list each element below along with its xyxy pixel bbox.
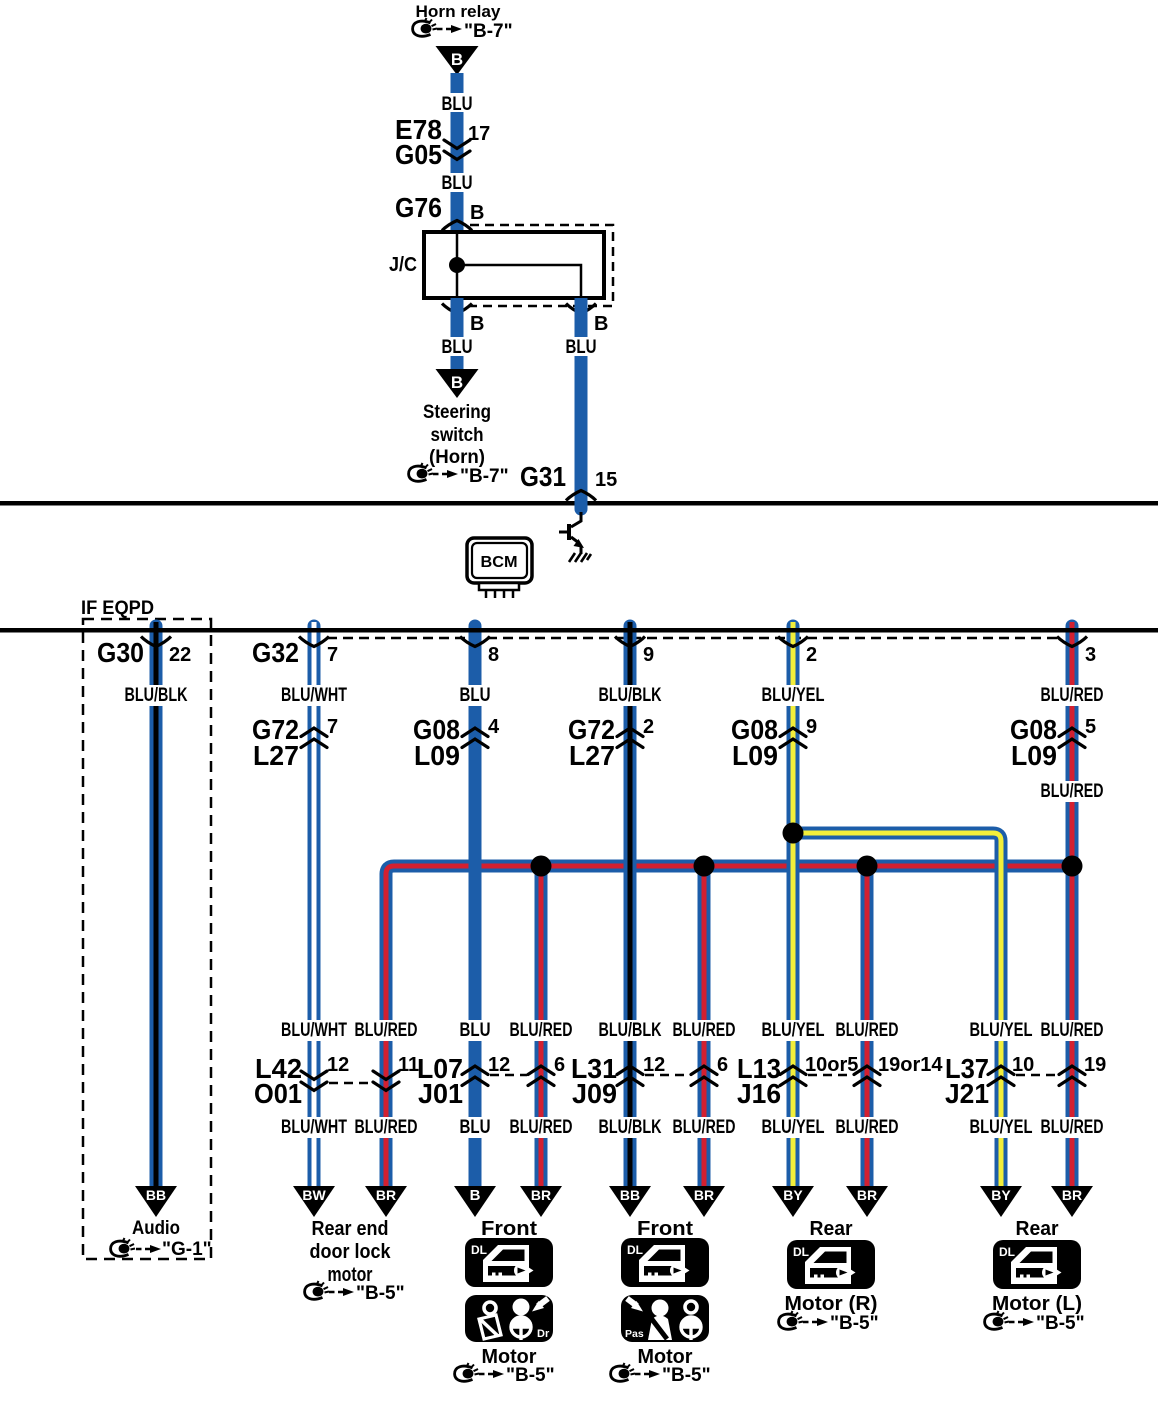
wire BLU to steering switch <box>451 298 464 369</box>
dashed arrow to "B-5" <box>1009 1318 1034 1326</box>
eye symbol (audio reference) <box>111 1238 135 1256</box>
svg-text:BLU/BLK: BLU/BLK <box>599 685 662 706</box>
svg-text:BLU/RED: BLU/RED <box>355 1020 418 1041</box>
svg-text:(Horn): (Horn) <box>429 447 485 468</box>
wire BLU/BLK pin 9 <box>624 626 637 1190</box>
svg-text:2: 2 <box>643 716 654 738</box>
svg-text:B: B <box>594 313 608 335</box>
connector G72/L27 (G32 circuit) <box>252 714 338 771</box>
wire label BLU/RED (row2) <box>671 1020 737 1041</box>
svg-text:Rear: Rear <box>810 1218 853 1240</box>
BCM pin chevron 3 <box>1057 637 1087 647</box>
dashed arrow to "B-7" <box>433 470 458 478</box>
junction dot bus at 541 <box>531 856 552 877</box>
svg-text:G76: G76 <box>395 192 442 223</box>
triangle connector BR <box>683 1186 725 1217</box>
connector L07/J01 <box>417 1053 565 1109</box>
svg-text:BLU/RED: BLU/RED <box>673 1117 736 1138</box>
connector G76 chevron <box>442 221 472 231</box>
triangle connector BY <box>772 1186 814 1217</box>
wire BLU/RED stub to L07 pin 6 <box>535 866 548 1190</box>
triangle connector BR <box>520 1186 562 1217</box>
svg-text:switch: switch <box>431 425 484 446</box>
svg-text:"B-5": "B-5" <box>662 1365 711 1386</box>
svg-text:BLU/WHT: BLU/WHT <box>281 685 347 706</box>
svg-text:BR: BR <box>694 1187 714 1203</box>
junction connector J/C box <box>424 232 604 298</box>
svg-text:5: 5 <box>1085 716 1096 738</box>
svg-text:IF EQPD: IF EQPD <box>81 598 154 619</box>
svg-text:9: 9 <box>643 644 654 666</box>
svg-text:G31: G31 <box>520 461 566 492</box>
triangle connector BY <box>980 1186 1022 1217</box>
connector L31/J09 <box>571 1053 728 1109</box>
connector G08/L09 (BLU circuit) <box>413 714 500 771</box>
BCM module icon <box>467 538 532 583</box>
svg-text:Rear: Rear <box>1016 1218 1059 1240</box>
wire BLU/RED stub to L31 pin 6 <box>698 866 711 1190</box>
triangle connector BR <box>1051 1186 1093 1217</box>
wire label BLU/RED (row3) <box>834 1117 900 1138</box>
connector L13/J16 <box>737 1053 943 1109</box>
eye symbol (rear left motor reference) <box>985 1311 1009 1329</box>
connector L37/J21 <box>945 1053 1106 1109</box>
dashed arrow to "B-5" <box>329 1288 354 1296</box>
svg-text:O01: O01 <box>254 1078 302 1109</box>
BCM pin chevron G32 <box>299 637 329 647</box>
svg-text:3: 3 <box>1085 644 1096 666</box>
wire label BLU/RED (row3) <box>1039 1117 1105 1138</box>
J/C dashed connector outline <box>466 225 613 306</box>
junction dot bus at 704 <box>694 856 715 877</box>
wire label BLU/BLK (row3) <box>597 1117 663 1138</box>
svg-text:L09: L09 <box>1011 740 1057 771</box>
svg-text:L27: L27 <box>253 740 299 771</box>
svg-text:"B-5": "B-5" <box>830 1313 879 1334</box>
svg-text:Front: Front <box>481 1218 537 1240</box>
svg-text:BLU: BLU <box>566 337 597 358</box>
svg-text:G05: G05 <box>395 139 442 170</box>
wire label BLU/WHT (row3) <box>281 1117 347 1138</box>
wire BLU/RED pin 3 <box>1066 626 1079 1190</box>
wire BLU to BCM G31 <box>575 298 588 509</box>
wire BLU/RED stub to L13 pin 19or14 <box>861 866 874 1190</box>
dashed IF-EQPD box around G30 circuit <box>83 619 211 1259</box>
connector E78/G05 double chevron <box>444 140 470 160</box>
chevron below J/C right <box>566 304 596 314</box>
triangle connector B (from horn relay) <box>436 46 479 75</box>
svg-text:BB: BB <box>620 1187 640 1203</box>
svg-text:4: 4 <box>488 716 500 738</box>
wire BLU/WHT G32 pin 7 <box>308 626 321 1190</box>
svg-text:Horn relay: Horn relay <box>416 2 502 21</box>
svg-text:"B-7": "B-7" <box>460 466 509 487</box>
svg-text:12: 12 <box>327 1054 349 1076</box>
eye symbol (rear right motor reference) <box>779 1311 803 1329</box>
svg-text:BLU/RED: BLU/RED <box>510 1117 573 1138</box>
svg-text:BLU/WHT: BLU/WHT <box>281 1020 347 1041</box>
door lock icon DL (front passenger) <box>621 1238 709 1287</box>
triangle connector BW <box>293 1186 335 1217</box>
svg-text:BR: BR <box>531 1187 551 1203</box>
dashed BCM pin boundary line <box>327 637 1059 640</box>
svg-text:12: 12 <box>488 1054 510 1076</box>
door lock icon DL (rear right) <box>787 1240 875 1289</box>
wire label BLU/BLK (row2) <box>597 1020 663 1041</box>
svg-text:"B-5": "B-5" <box>506 1365 555 1386</box>
svg-text:BLU/RED: BLU/RED <box>836 1117 899 1138</box>
svg-text:BLU/RED: BLU/RED <box>355 1117 418 1138</box>
svg-text:17: 17 <box>468 123 490 145</box>
wire label BLU/YEL (row3) <box>760 1117 826 1138</box>
wire label BLU/YEL (row2) <box>968 1020 1034 1041</box>
triangle connector BR <box>846 1186 888 1217</box>
eye symbol (Horn relay reference) <box>413 18 437 36</box>
BCM internal boundary line (top) <box>0 501 1158 506</box>
wire BLU pin 8 <box>469 626 482 1190</box>
svg-text:"B-7": "B-7" <box>464 21 513 42</box>
svg-text:BLU/YEL: BLU/YEL <box>762 1020 825 1041</box>
svg-text:BLU/BLK: BLU/BLK <box>599 1117 662 1138</box>
svg-text:B: B <box>451 373 463 392</box>
svg-text:J21: J21 <box>945 1078 989 1109</box>
dashed arrow to "B-5" <box>479 1370 504 1378</box>
wire label BLU/RED (row3) <box>353 1117 419 1138</box>
svg-text:J/C: J/C <box>389 254 417 276</box>
svg-text:BLU: BLU <box>442 94 473 115</box>
wire label BLU/RED <box>1037 685 1107 706</box>
svg-text:19or14: 19or14 <box>878 1054 943 1076</box>
door lock icon DL (rear left) <box>993 1240 1081 1289</box>
chevron below J/C left <box>442 304 472 314</box>
dashed arrow to "B-7" <box>437 25 462 33</box>
svg-text:Motor (R): Motor (R) <box>785 1293 878 1315</box>
svg-text:11: 11 <box>398 1054 419 1076</box>
connector L42/O01 <box>254 1053 419 1109</box>
svg-text:J16: J16 <box>737 1078 781 1109</box>
ground symbol <box>569 553 591 562</box>
triangle connector BB <box>609 1186 651 1217</box>
svg-text:BCM: BCM <box>481 554 518 571</box>
J/C internal wire <box>456 232 459 298</box>
wire label BLU/RED (row2) <box>508 1020 574 1041</box>
svg-text:BLU/RED: BLU/RED <box>673 1020 736 1041</box>
junction dot BLU/YEL <box>783 823 804 844</box>
eye symbol (front driver motor reference) <box>455 1363 479 1381</box>
dashed arrow to "B-5" <box>635 1370 660 1378</box>
svg-text:BLU: BLU <box>442 337 473 358</box>
BCM pin chevron 8 <box>460 637 490 647</box>
svg-text:B: B <box>470 1187 481 1204</box>
svg-text:G30: G30 <box>97 637 144 668</box>
wire label BLU/RED (row3) <box>671 1117 737 1138</box>
eye symbol (steering switch reference) <box>409 463 433 481</box>
wire label BLU/YEL (row2) <box>760 1020 826 1041</box>
wire label BLU/RED (row3) <box>508 1117 574 1138</box>
svg-text:BLU/YEL: BLU/YEL <box>970 1020 1033 1041</box>
J/C junction dot <box>449 257 465 273</box>
svg-text:L09: L09 <box>732 740 778 771</box>
wire BLU/RED bus (L42 pin 11 branch) <box>386 866 1072 1190</box>
connector G31 chevron <box>566 491 596 501</box>
svg-text:BLU/RED: BLU/RED <box>1041 781 1104 802</box>
wire label BLU/BLK <box>595 685 665 706</box>
BCM pin chevron 9 <box>615 637 645 647</box>
svg-text:BLU/RED: BLU/RED <box>1041 1020 1104 1041</box>
wire label BLU/RED (below G08/L09) <box>1037 781 1107 802</box>
svg-text:BB: BB <box>146 1187 166 1203</box>
junction dot bus at 1072 <box>1062 856 1083 877</box>
dashed arrow to "B-5" <box>803 1318 828 1326</box>
svg-text:BLU/RED: BLU/RED <box>836 1020 899 1041</box>
BCM pin boundary line (bottom) <box>0 628 1158 633</box>
wire label BLU/BLK <box>121 685 191 706</box>
svg-text:"G-1": "G-1" <box>162 1239 212 1260</box>
svg-text:"B-5": "B-5" <box>1036 1313 1085 1334</box>
svg-text:BW: BW <box>302 1187 326 1203</box>
BCM pin chevron G30 <box>141 637 171 647</box>
svg-text:BLU/RED: BLU/RED <box>1041 1117 1104 1138</box>
svg-text:BLU: BLU <box>460 1117 491 1138</box>
wire BLU/YEL branch (to L37 pin 10) <box>793 833 1001 1190</box>
svg-text:Audio: Audio <box>132 1218 180 1239</box>
svg-text:6: 6 <box>717 1054 728 1076</box>
svg-text:8: 8 <box>488 644 499 666</box>
wire label BLU/YEL (row3) <box>968 1117 1034 1138</box>
wire BLU/YEL pin 2 <box>787 626 800 1190</box>
transistor inside BCM <box>571 512 581 527</box>
svg-text:BLU: BLU <box>442 173 473 194</box>
svg-text:J09: J09 <box>572 1078 617 1109</box>
triangle connector B (to steering switch) <box>436 369 479 398</box>
svg-text:B: B <box>451 50 463 69</box>
svg-text:BY: BY <box>783 1187 803 1203</box>
dashed arrow to "G-1" <box>136 1245 161 1253</box>
junction dot bus at 867 <box>857 856 878 877</box>
svg-text:BR: BR <box>376 1187 396 1203</box>
connector G72/L27 (BLU/BLK circuit) <box>568 714 654 771</box>
wire label BLU/RED (row2) <box>353 1020 419 1041</box>
wire label BLU/WHT (row2) <box>281 1020 347 1041</box>
svg-text:BLU/BLK: BLU/BLK <box>125 685 188 706</box>
connector G08/L09 (BLU/RED circuit) <box>1010 714 1096 771</box>
svg-text:B: B <box>470 202 484 224</box>
wire label BLU/RED (row2) <box>834 1020 900 1041</box>
svg-text:BLU/YEL: BLU/YEL <box>970 1117 1033 1138</box>
wire BLU/BLK G30 pin 22 (audio) <box>150 626 163 1190</box>
svg-text:L09: L09 <box>414 740 460 771</box>
svg-text:9: 9 <box>806 716 817 738</box>
svg-text:10: 10 <box>1012 1054 1034 1076</box>
eye symbol (rear end door lock motor reference) <box>305 1281 329 1299</box>
svg-text:2: 2 <box>806 644 817 666</box>
svg-text:12: 12 <box>643 1054 665 1076</box>
svg-text:BLU/RED: BLU/RED <box>510 1020 573 1041</box>
svg-text:BLU/YEL: BLU/YEL <box>762 685 825 706</box>
wire BLU from triangle B to J/C <box>451 73 464 233</box>
wire label BLU/YEL <box>758 685 828 706</box>
passenger motor icon Pas <box>621 1295 709 1342</box>
svg-text:BLU/BLK: BLU/BLK <box>599 1020 662 1041</box>
svg-text:Rear end: Rear end <box>312 1218 389 1240</box>
svg-text:BLU/RED: BLU/RED <box>1041 685 1104 706</box>
wire label BLU/WHT <box>279 685 349 706</box>
svg-text:BY: BY <box>991 1187 1011 1203</box>
svg-text:6: 6 <box>554 1054 565 1076</box>
svg-text:BLU/WHT: BLU/WHT <box>281 1117 347 1138</box>
connector G08/L09 (BLU/YEL circuit) <box>731 714 817 771</box>
svg-text:15: 15 <box>595 469 617 491</box>
svg-text:BLU: BLU <box>460 685 491 706</box>
BCM pin chevron 2 <box>778 637 808 647</box>
svg-text:BLU: BLU <box>460 1020 491 1041</box>
triangle connector BR <box>365 1186 407 1217</box>
svg-text:22: 22 <box>169 644 191 666</box>
wire label BLU <box>455 685 495 706</box>
svg-text:"B-5": "B-5" <box>356 1283 405 1304</box>
svg-text:19: 19 <box>1084 1054 1106 1076</box>
svg-text:Front: Front <box>637 1218 693 1240</box>
wire label BLU (row3) <box>455 1117 495 1138</box>
svg-text:L27: L27 <box>569 740 615 771</box>
svg-text:B: B <box>470 313 484 335</box>
svg-text:Motor (L): Motor (L) <box>992 1293 1082 1315</box>
svg-text:7: 7 <box>327 716 338 738</box>
svg-text:BR: BR <box>1062 1187 1082 1203</box>
wire label BLU (row2) <box>455 1020 495 1041</box>
eye symbol (front passenger motor reference) <box>611 1363 635 1381</box>
door lock icon DL (front driver) <box>465 1238 553 1287</box>
svg-text:7: 7 <box>327 644 338 666</box>
svg-text:Steering: Steering <box>423 402 491 423</box>
wire label BLU/RED (row2) <box>1039 1020 1105 1041</box>
triangle connector B <box>454 1186 496 1217</box>
svg-text:door lock: door lock <box>310 1241 392 1263</box>
driver motor icon Dr <box>465 1295 553 1342</box>
svg-text:J01: J01 <box>418 1078 463 1109</box>
svg-text:BR: BR <box>857 1187 877 1203</box>
svg-text:10or5: 10or5 <box>805 1054 858 1076</box>
svg-text:BLU/YEL: BLU/YEL <box>762 1117 825 1138</box>
svg-text:G32: G32 <box>252 637 299 668</box>
triangle connector BB (audio) <box>135 1186 177 1217</box>
